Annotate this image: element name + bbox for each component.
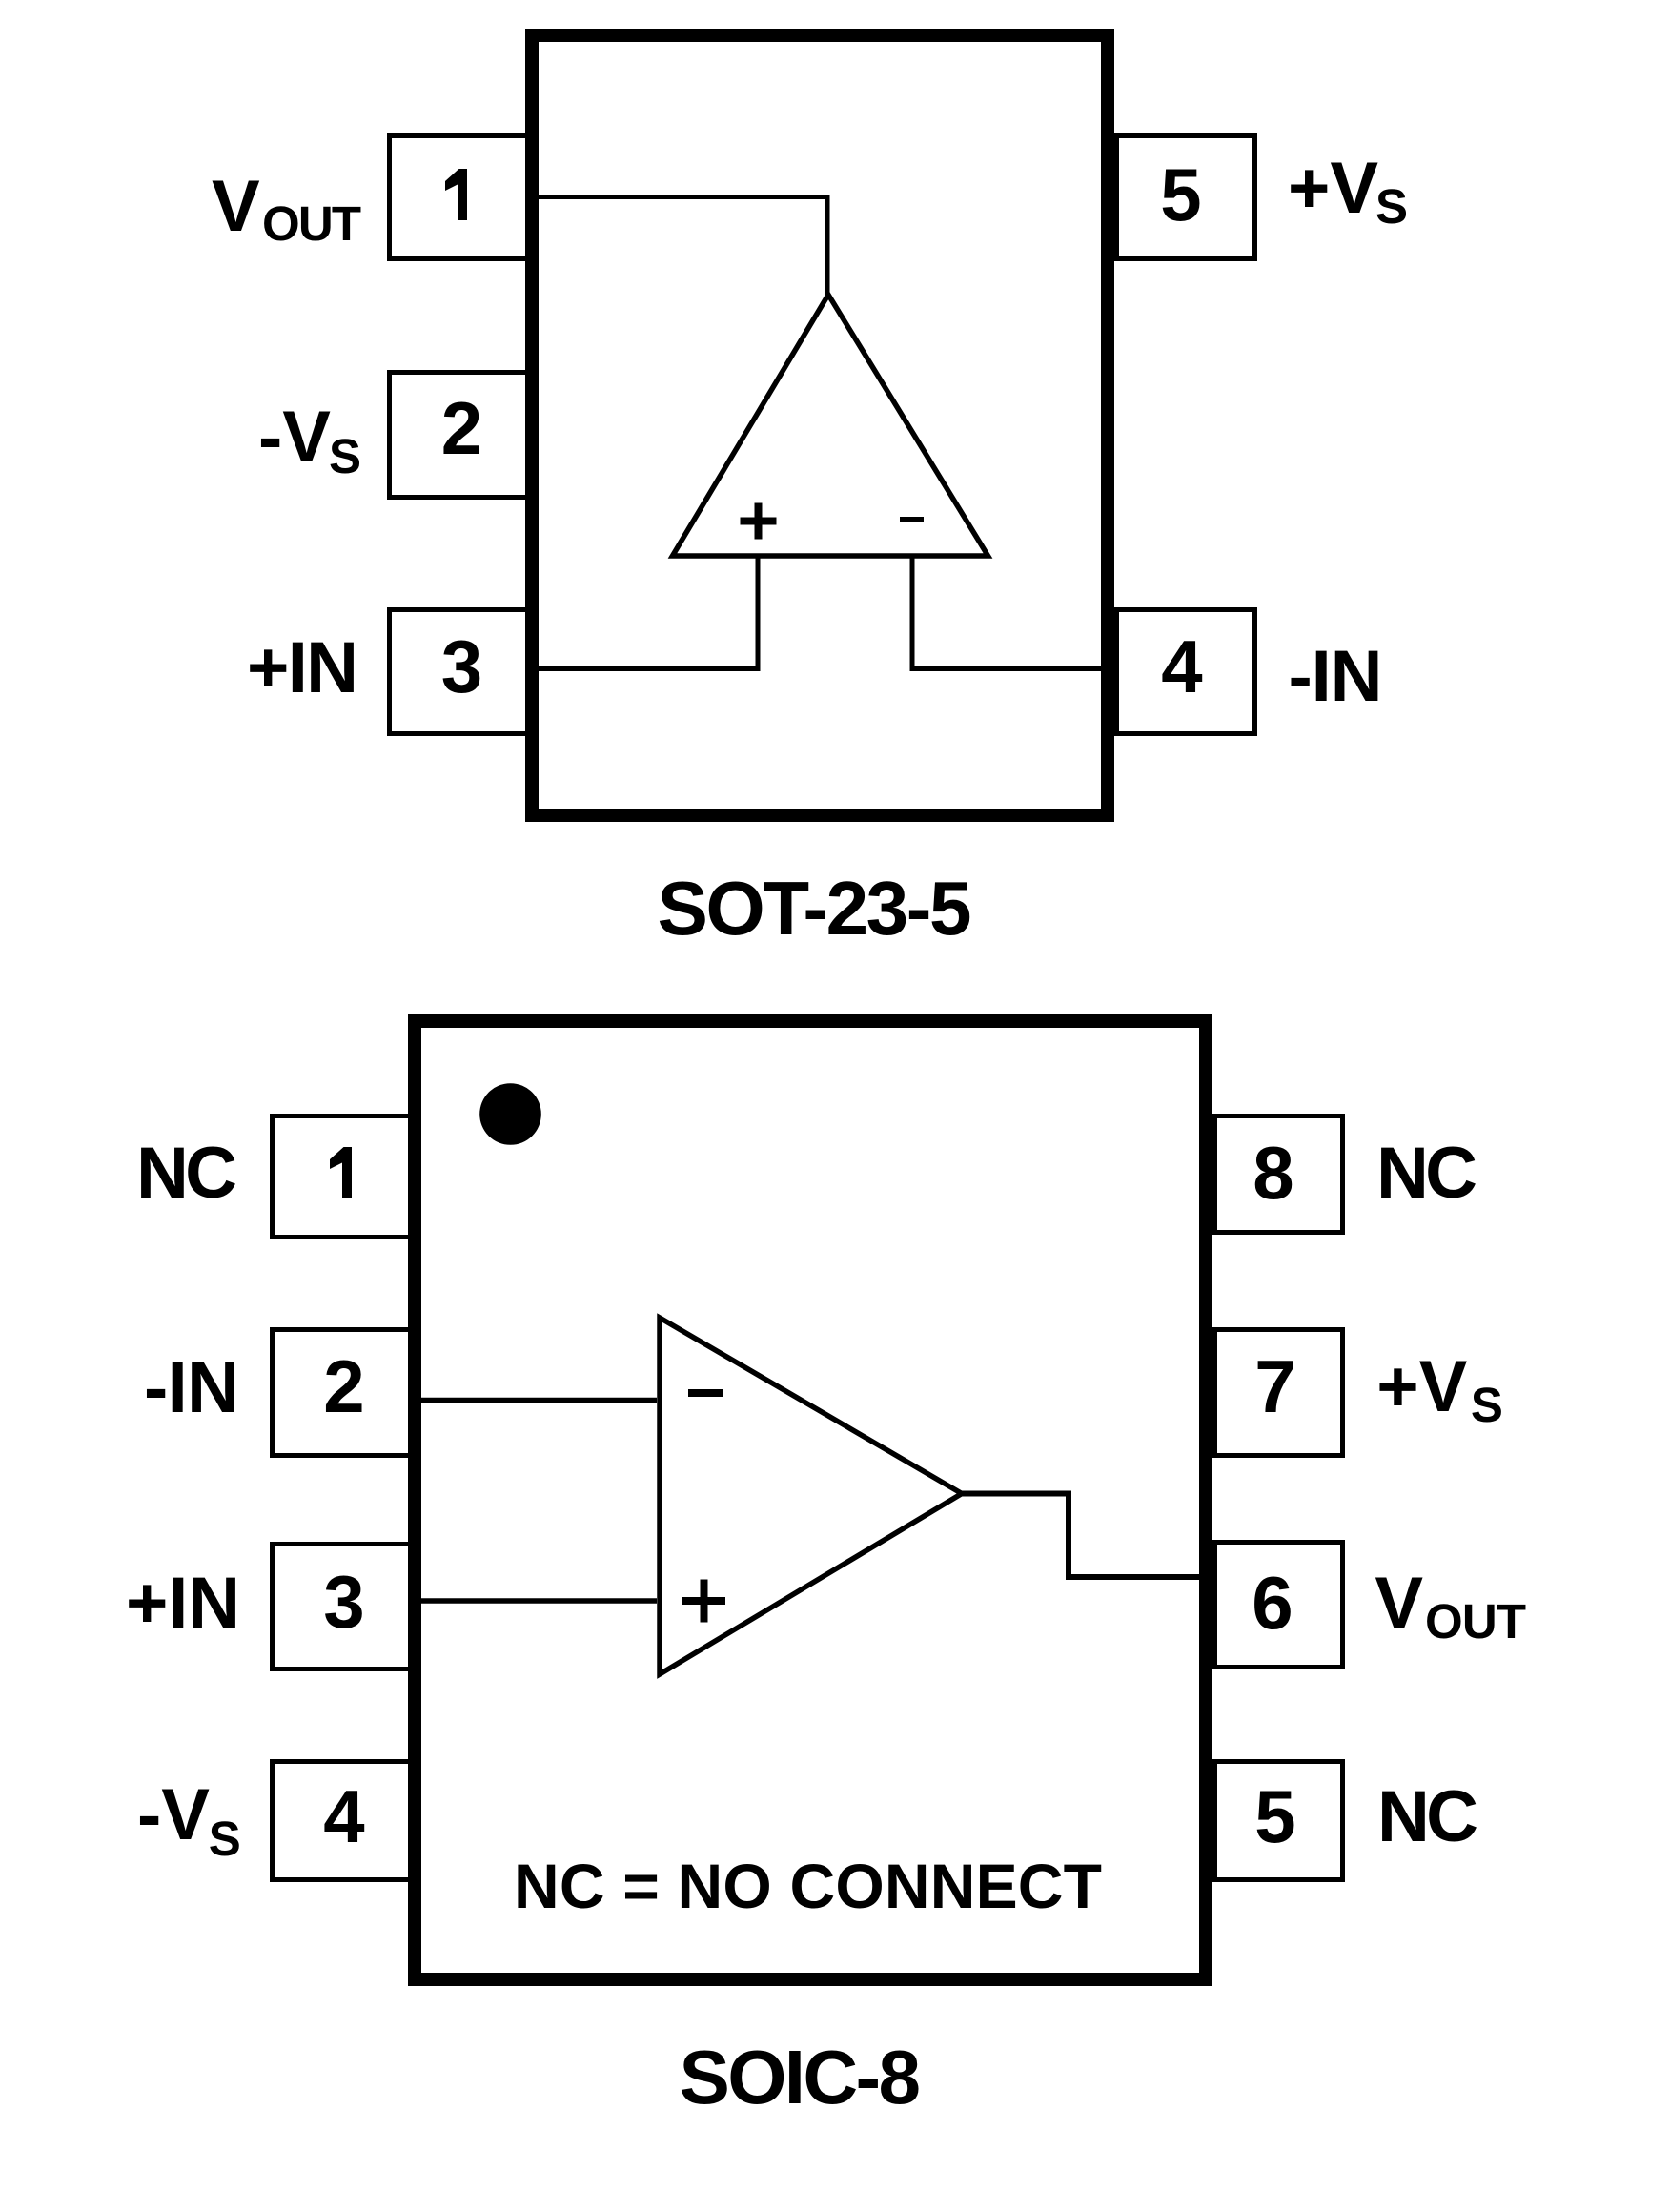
pin 4 box [1117,610,1255,734]
svg-text:S: S [329,429,361,483]
op-amp A1 - input label [900,517,924,522]
svg-text:8: 8 [1252,1131,1293,1215]
svg-text:3: 3 [323,1560,364,1644]
svg-text:V: V [212,166,260,247]
pin 5 box [1117,136,1255,259]
svg-text:7: 7 [1254,1344,1295,1428]
svg-text:+IN: +IN [247,627,358,708]
svg-text:6: 6 [1252,1561,1293,1645]
pin 3 box [390,610,528,734]
svg-text:5: 5 [1254,1774,1295,1858]
op-amp A2 - input label [688,1389,723,1397]
svg-text:OUT: OUT [262,196,361,251]
svg-text:5: 5 [1160,153,1201,236]
pin 8 box [1215,1116,1343,1233]
svg-text:3: 3 [441,625,482,708]
pin 5 box [1215,1762,1343,1880]
svg-text:+V: +V [1288,148,1378,229]
svg-text:OUT: OUT [1425,1594,1526,1649]
svg-text:2: 2 [441,386,482,470]
pin 4 box [273,1762,411,1880]
pin 7 box [1215,1330,1343,1456]
IC package U1 body (SOT-23-5) [532,35,1108,815]
svg-text:SOT-23-5: SOT-23-5 [658,866,972,951]
op-amp A1 + input label [741,503,777,540]
IC package U2 body (SOIC-8) [415,1021,1206,1979]
wire op-amp A2 output to pin 6 [957,1494,1207,1578]
svg-text:+IN: +IN [126,1563,240,1644]
svg-text:S: S [1375,179,1408,234]
svg-text:NC: NC [136,1133,237,1214]
svg-text:-IN: -IN [1289,636,1383,717]
op-amp A2 + input label [682,1580,725,1623]
wire pin 3 to op-amp A1 + input [530,554,758,669]
svg-text:-V: -V [258,397,331,478]
pin 1 box [390,136,528,259]
svg-text:4: 4 [323,1774,364,1858]
svg-text:V: V [1375,1563,1423,1644]
svg-text:S: S [209,1812,241,1866]
wire pin 1 to op-amp A1 output [530,197,827,298]
wire pin 2 to op-amp A2 - input [410,1398,657,1403]
op-amp A1 [673,295,988,556]
pin 2 box [390,373,528,498]
svg-text:NC: NC [1377,1776,1478,1857]
pin 3 box [273,1545,411,1669]
pin 1 number [330,1147,352,1198]
pin 1 box [273,1116,411,1238]
pin 6 box [1215,1543,1343,1668]
svg-text:SOIC-8: SOIC-8 [680,2035,922,2120]
pin 1 number [445,169,467,220]
svg-text:NC: NC [1376,1133,1477,1214]
svg-text:-V: -V [137,1774,210,1855]
svg-text:S: S [1471,1378,1503,1432]
svg-text:2: 2 [323,1344,364,1428]
svg-text:-IN: -IN [144,1347,239,1428]
op-amp A2 [660,1318,962,1674]
pin 2 box [273,1330,411,1456]
svg-text:+V: +V [1376,1346,1467,1427]
svg-text:4: 4 [1161,625,1202,708]
wire pin 4 to op-amp A1 - input [912,554,1110,669]
svg-text:NC = NO CONNECT: NC = NO CONNECT [514,1851,1102,1921]
pin 1 orientation dot [479,1083,541,1145]
wire pin 3 to op-amp A2 + input [410,1598,657,1604]
